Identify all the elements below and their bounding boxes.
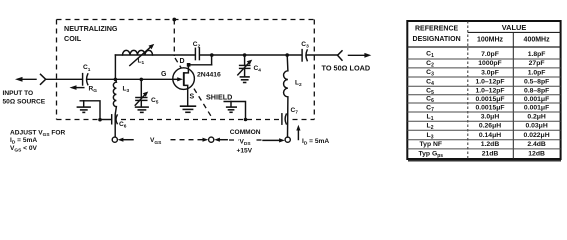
svg-text:27pF: 27pF <box>529 60 545 67</box>
svg-text:21dB: 21dB <box>482 150 499 157</box>
svg-text:0.0015μF: 0.0015μF <box>475 96 504 103</box>
svg-text:TO 50Ω LOAD: TO 50Ω LOAD <box>322 64 371 73</box>
svg-text:7.0pF: 7.0pF <box>481 51 499 58</box>
svg-text:1.0–12pF: 1.0–12pF <box>475 87 504 94</box>
svg-text:1.8pF: 1.8pF <box>528 51 546 58</box>
svg-text:DESIGNATION: DESIGNATION <box>413 36 461 43</box>
svg-text:1.0–12pF: 1.0–12pF <box>475 79 504 86</box>
svg-text:3.0pF: 3.0pF <box>481 69 499 76</box>
svg-text:REFERENCE: REFERENCE <box>415 26 459 33</box>
svg-text:0.5–8pF: 0.5–8pF <box>524 79 549 86</box>
svg-text:0.14μH: 0.14μH <box>479 132 501 139</box>
svg-text:SHIELD: SHIELD <box>206 93 232 102</box>
svg-text:Typ NF: Typ NF <box>420 141 443 148</box>
svg-text:1000pF: 1000pF <box>478 60 501 67</box>
svg-text:G: G <box>161 71 167 78</box>
svg-text:COMMON: COMMON <box>230 129 261 136</box>
svg-text:100MHz: 100MHz <box>477 37 504 44</box>
svg-text:0.8–8pF: 0.8–8pF <box>524 87 549 94</box>
svg-text:COIL: COIL <box>64 34 82 43</box>
svg-text:0.03μH: 0.03μH <box>525 123 547 130</box>
svg-text:0.26μH: 0.26μH <box>479 123 501 130</box>
svg-text:S: S <box>190 93 195 100</box>
svg-text:2N4416: 2N4416 <box>197 71 221 78</box>
svg-text:0.022μH: 0.022μH <box>524 132 550 139</box>
svg-text:NEUTRALIZING: NEUTRALIZING <box>64 24 118 33</box>
svg-text:1.2dB: 1.2dB <box>481 141 500 148</box>
svg-text:3.0μH: 3.0μH <box>481 114 500 121</box>
svg-text:0.001μF: 0.001μF <box>524 96 549 103</box>
svg-text:12dB: 12dB <box>528 150 545 157</box>
svg-text:1.0pF: 1.0pF <box>528 69 546 76</box>
svg-text:0.2μH: 0.2μH <box>527 114 546 121</box>
svg-text:400MHz: 400MHz <box>524 37 551 44</box>
svg-text:2.4dB: 2.4dB <box>527 141 546 148</box>
svg-text:INPUT TO: INPUT TO <box>3 90 34 97</box>
svg-text:0.0015μF: 0.0015μF <box>475 105 504 112</box>
svg-text:+15V: +15V <box>237 147 253 154</box>
svg-text:D: D <box>180 58 185 65</box>
svg-text:0.001μF: 0.001μF <box>524 105 549 112</box>
svg-text:50Ω SOURCE: 50Ω SOURCE <box>3 99 46 106</box>
svg-text:VALUE: VALUE <box>502 23 527 32</box>
